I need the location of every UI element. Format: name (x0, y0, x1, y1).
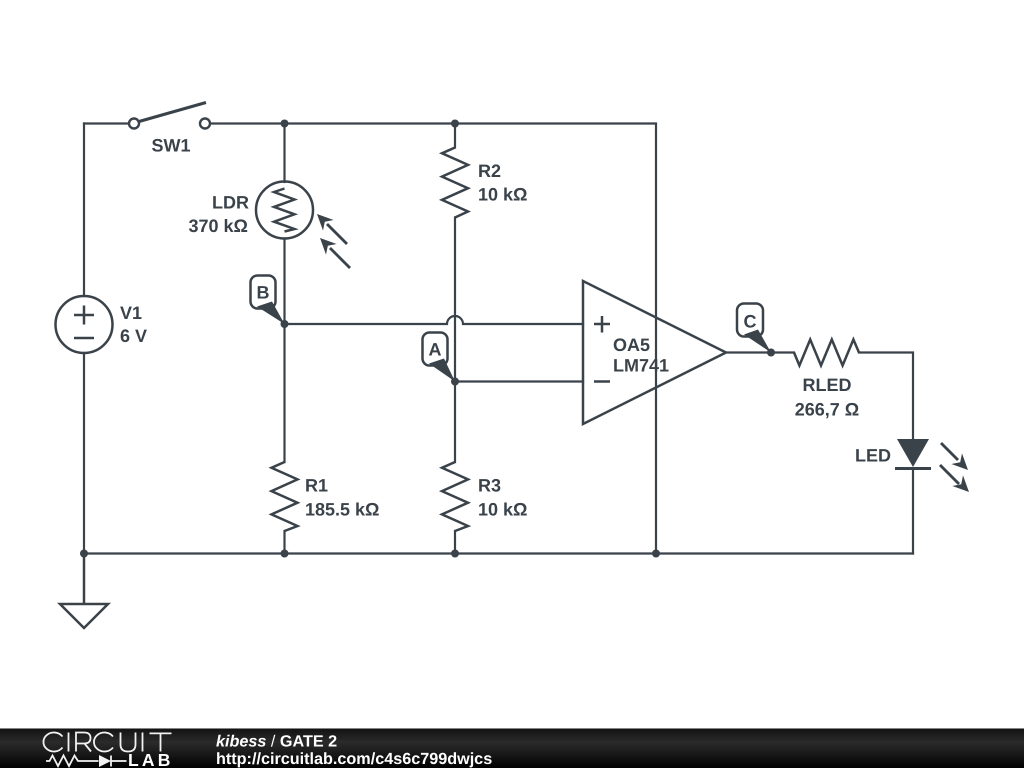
svg-text:RLED: RLED (803, 375, 852, 395)
junction dot bottom bus / ground (80, 550, 88, 558)
wire switch to top-right corner and right rail down (210, 124, 656, 554)
svg-text:10 kΩ: 10 kΩ (478, 185, 527, 205)
op-amp OA5 LM741 (583, 281, 726, 424)
LDR photoresistor (256, 182, 313, 239)
svg-text:10 kΩ: 10 kΩ (478, 500, 527, 520)
svg-text:V1: V1 (120, 303, 142, 323)
svg-text:R1: R1 (305, 476, 328, 496)
ground (60, 554, 108, 629)
junction dot node A (451, 378, 459, 386)
op-amp - input symbol (594, 380, 610, 383)
svg-text:A: A (429, 340, 442, 360)
svg-text:LAB: LAB (128, 750, 174, 768)
node C label (737, 304, 771, 353)
resistor RLED (794, 340, 859, 366)
junction dot node B (281, 320, 289, 328)
resistor R2 (442, 148, 468, 218)
junction dot bottom bus / R3 (451, 550, 459, 558)
LDR light arrows (317, 214, 350, 268)
voltage source V1 (56, 296, 113, 353)
svg-text:R2: R2 (478, 161, 501, 181)
op-amp + input symbol (594, 316, 610, 333)
wire node B to R1 (283, 324, 285, 462)
wire R2 to node A and R3 (454, 218, 456, 463)
svg-text:370 kΩ: 370 kΩ (189, 216, 248, 236)
wire left rail upper (top wire to V1) (83, 124, 85, 297)
wire R2 branch upper (454, 124, 456, 148)
svg-text:kibess / GATE 2: kibess / GATE 2 (216, 733, 337, 751)
junction dot bottom bus / R1 (281, 550, 289, 558)
switch SW1 (129, 103, 210, 129)
wire LDR to node B (283, 239, 285, 325)
LED diode (895, 439, 931, 469)
wire R1 to bottom bus (283, 531, 285, 554)
junction dot top wire / R2 branch (451, 120, 459, 128)
node B label (251, 276, 285, 325)
svg-text:LM741: LM741 (613, 356, 669, 376)
CircuitLab logo diode triangle (99, 755, 111, 767)
resistor R1 (272, 462, 298, 531)
svg-text:http://circuitlab.com/c4s6c799: http://circuitlab.com/c4s6c799dwjcs (216, 750, 492, 768)
wire node A to opamp - input (455, 380, 583, 382)
wire R3 to bottom bus (454, 531, 456, 554)
node A label (423, 333, 456, 382)
svg-text:B: B (257, 283, 270, 303)
svg-text:C: C (744, 312, 757, 332)
CircuitLab logo resistor-diode glyph (46, 756, 127, 767)
footer bar (0, 728, 1024, 768)
svg-text:185.5 kΩ: 185.5 kΩ (305, 500, 380, 520)
wire opamp output to node C and RLED (726, 351, 794, 353)
junction dot bottom bus / right rail (652, 550, 660, 558)
LED light arrows (940, 443, 969, 492)
svg-text:R3: R3 (478, 476, 501, 496)
junction dot node C (767, 349, 775, 357)
wire left rail lower (V1 to bottom bus) (83, 353, 85, 554)
svg-text:266,7 Ω: 266,7 Ω (795, 400, 859, 420)
wire RLED to top of LED branch (859, 353, 913, 440)
wire LED to bottom bus (912, 469, 914, 554)
wire bottom bus (84, 552, 913, 554)
junction dot top wire / LDR branch (281, 120, 289, 128)
svg-text:6 V: 6 V (120, 326, 147, 346)
svg-text:SW1: SW1 (151, 136, 190, 156)
wire node B to opamp + input with hop over vertical wire (285, 316, 584, 324)
wire top-left horizontal to switch (84, 122, 129, 124)
svg-text:LED: LED (855, 446, 891, 466)
wire LDR branch upper (283, 124, 285, 183)
CircuitLab logo wordmark CIRCUIT (43, 733, 171, 752)
svg-text:OA5: OA5 (613, 335, 650, 355)
resistor R3 (442, 462, 468, 531)
svg-text:LDR: LDR (212, 193, 249, 213)
